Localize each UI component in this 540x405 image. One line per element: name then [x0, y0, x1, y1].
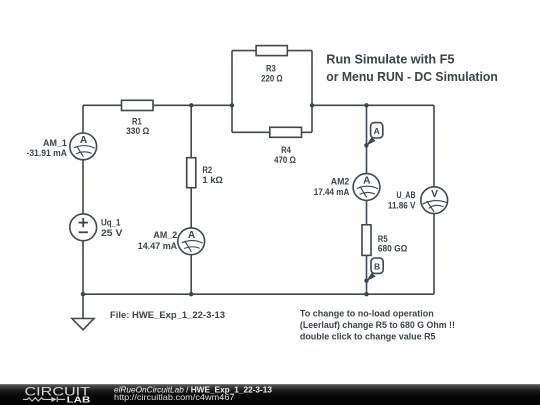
- svg-text:A: A: [363, 176, 371, 187]
- svg-text:-31.91 mA: -31.91 mA: [27, 148, 67, 159]
- svg-text:V: V: [431, 189, 438, 200]
- svg-text:double click to change value R: double click to change value R5: [300, 332, 436, 343]
- svg-text:B: B: [374, 262, 380, 272]
- svg-text:AM2: AM2: [331, 176, 350, 187]
- svg-text:or Menu RUN - DC Simulation: or Menu RUN - DC Simulation: [326, 69, 498, 84]
- svg-text:1 kΩ: 1 kΩ: [202, 175, 223, 186]
- svg-text:A: A: [80, 135, 88, 146]
- svg-text:470 Ω: 470 Ω: [274, 155, 296, 166]
- svg-text:220 Ω: 220 Ω: [261, 73, 283, 84]
- svg-text:Uq_1: Uq_1: [101, 217, 121, 228]
- svg-text:330 Ω: 330 Ω: [126, 126, 149, 137]
- svg-text:To change to no-load operation: To change to no-load operation: [300, 308, 434, 319]
- svg-text:AM_2: AM_2: [153, 230, 177, 241]
- svg-text:11.86 V: 11.86 V: [388, 201, 416, 212]
- svg-text:25 V: 25 V: [101, 228, 123, 239]
- svg-text:A: A: [188, 230, 196, 241]
- svg-text:A: A: [374, 126, 380, 136]
- svg-text:LAB: LAB: [67, 395, 91, 405]
- svg-text:http://circuitlab.com/c4wm467: http://circuitlab.com/c4wm467: [114, 392, 235, 402]
- svg-text:(Leerlauf) change R5 to 680 G: (Leerlauf) change R5 to 680 G Ohm !!: [300, 320, 455, 331]
- svg-text:U_AB: U_AB: [397, 190, 416, 201]
- svg-text:680 GΩ: 680 GΩ: [378, 244, 408, 255]
- svg-text:14.47 mA: 14.47 mA: [138, 241, 178, 252]
- svg-text:Run Simulate with F5: Run Simulate with F5: [326, 51, 454, 66]
- svg-text:17.44 mA: 17.44 mA: [314, 187, 350, 198]
- svg-text:File: HWE_Exp_1_22-3-13: File: HWE_Exp_1_22-3-13: [110, 310, 225, 321]
